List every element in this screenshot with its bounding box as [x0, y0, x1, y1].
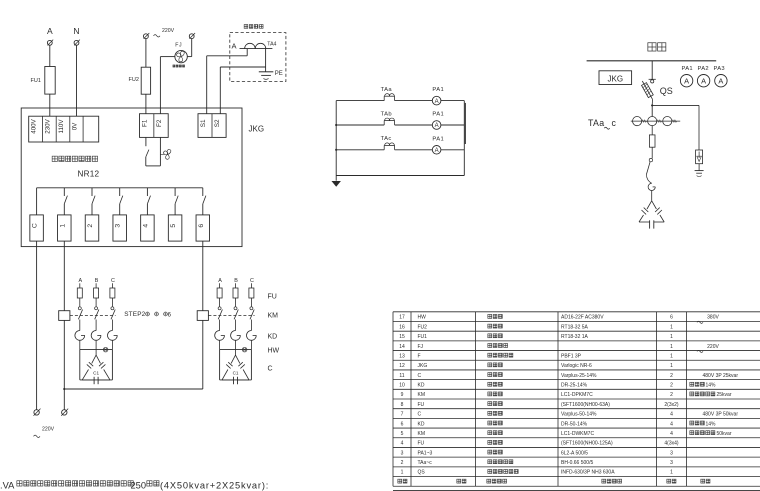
svg-text:13: 13 — [399, 353, 405, 359]
current transformers TAa-c (cabinet) — [631, 117, 680, 135]
svg-text:3: 3 — [670, 460, 673, 466]
contactor KM contact — [78, 307, 82, 331]
svg-text:3: 3 — [670, 450, 673, 456]
svg-text:JKG: JKG — [608, 75, 624, 84]
svg-text:4(3x4): 4(3x4) — [664, 441, 679, 447]
relay contact K6 — [203, 188, 206, 215]
svg-text:N: N — [73, 26, 79, 36]
svg-text:TAa: TAa — [381, 87, 393, 93]
capacitor delta (cabinet) — [639, 201, 664, 229]
relay contact K5 — [175, 188, 178, 215]
svg-text:C: C — [32, 223, 39, 228]
svg-text:c: c — [612, 118, 617, 128]
wire right measuring bus — [464, 101, 465, 176]
svg-text:PBF1 3P: PBF1 3P — [561, 353, 582, 359]
svg-text:17: 17 — [399, 315, 405, 321]
svg-text:TAc: TAc — [381, 136, 392, 142]
current transformer TA4 — [240, 42, 277, 49]
svg-text:A: A — [47, 26, 53, 36]
wire KM1 coil to common — [63, 320, 65, 409]
wire bus to QS — [649, 61, 656, 83]
contactor KM contact — [111, 307, 115, 331]
terminal 220V-a (bottom) — [34, 409, 41, 416]
reactor KD — [75, 331, 85, 350]
wire KM common run — [63, 388, 202, 390]
svg-text:PA3: PA3 — [714, 66, 725, 72]
ammeter PA1 (TAa) — [432, 87, 464, 105]
svg-text:TAa: TAa — [588, 118, 604, 128]
svg-text:1: 1 — [59, 224, 66, 228]
svg-text:2: 2 — [87, 224, 94, 228]
contactor KM contact — [95, 307, 99, 331]
output bus inside JKG — [37, 187, 203, 189]
svg-text:NR12: NR12 — [78, 170, 100, 179]
wire bottom return — [336, 175, 464, 177]
svg-text:A: A — [435, 123, 439, 129]
output terminal 5 — [168, 215, 182, 241]
contactor KM contact — [250, 307, 254, 331]
label cooling-fan (CJK) — [173, 65, 185, 67]
svg-text:PA1: PA1 — [682, 66, 693, 72]
svg-text:2(3x2): 2(3x2) — [664, 402, 679, 408]
svg-text:FU: FU — [418, 441, 425, 447]
ground PE — [259, 71, 283, 80]
svg-text:PE: PE — [275, 71, 283, 77]
svg-text:PA1: PA1 — [432, 87, 444, 93]
svg-text:110V: 110V — [58, 119, 65, 134]
svg-text:1: 1 — [670, 344, 673, 350]
wire QS node — [651, 105, 699, 117]
capacitor bank C1 enclosure — [80, 350, 113, 380]
svg-text:16: 16 — [399, 324, 405, 330]
svg-text:BH-0.66 500/5: BH-0.66 500/5 — [561, 460, 593, 466]
terminal N — [74, 40, 80, 46]
svg-text:JKG: JKG — [418, 363, 428, 369]
contactor KM coil — [59, 305, 70, 320]
output terminal 3 — [113, 215, 127, 241]
reactor KD — [231, 331, 241, 350]
svg-text:QS: QS — [660, 86, 673, 96]
output terminal 2 — [85, 215, 99, 241]
wire 220V-N to fan — [187, 39, 191, 57]
svg-text:4: 4 — [670, 431, 673, 437]
svg-text:14%: 14% — [706, 421, 717, 427]
svg-text:C: C — [418, 373, 422, 379]
wire N to 0V terminal — [76, 45, 78, 116]
fuse FU (branch) — [77, 283, 82, 307]
svg-text:50kvar: 50kvar — [717, 431, 732, 437]
svg-text:FU: FU — [268, 294, 277, 301]
indicator lamp HW — [103, 347, 108, 352]
svg-text:PA1: PA1 — [432, 112, 444, 118]
svg-text:10: 10 — [399, 383, 405, 389]
wire output 1 down — [63, 241, 65, 311]
svg-text:(4X50kvar+2X25kvar):: (4X50kvar+2X25kvar): — [160, 480, 269, 490]
wire TA4 secondary 1 — [207, 49, 248, 114]
svg-text:A: A — [684, 77, 689, 86]
ammeter PA1 (TAc) — [432, 136, 464, 154]
terminal 220V-b (bottom) — [61, 409, 68, 416]
main busbar — [587, 60, 717, 62]
reactor KD — [107, 331, 117, 350]
capacitor C1 delta connection — [222, 350, 249, 385]
svg-text:KD: KD — [418, 383, 425, 389]
label main-cabinet (CJK) — [648, 43, 666, 51]
svg-text:1: 1 — [401, 470, 404, 476]
svg-text:STEP2: STEP2 — [124, 311, 145, 318]
contactor KM contact — [234, 307, 238, 331]
phase labels A B C — [78, 278, 114, 284]
svg-text:25kvar: 25kvar — [717, 392, 732, 398]
svg-text:220V: 220V — [162, 28, 175, 34]
terminal 220V-L (top) — [144, 33, 150, 39]
fuse FU2 — [129, 67, 151, 94]
label 220V supply (top) — [154, 28, 175, 37]
switch contact (cabinet) — [646, 158, 652, 183]
svg-text:KM: KM — [418, 431, 426, 437]
svg-text:2: 2 — [401, 460, 404, 466]
svg-text:Varlogic NR-6: Varlogic NR-6 — [561, 363, 592, 369]
svg-text:5: 5 — [170, 224, 177, 228]
svg-text:B: B — [95, 278, 99, 284]
controller JKG enclosure — [21, 108, 264, 247]
svg-text:F: F — [418, 353, 421, 359]
fuse FU (branch) — [233, 283, 238, 307]
reactor (cabinet) — [648, 183, 655, 201]
svg-text:C: C — [250, 278, 254, 284]
svg-text:6: 6 — [401, 421, 404, 427]
svg-text:DR-25-14%: DR-25-14% — [561, 383, 588, 389]
ammeter PA2 (cabinet) — [697, 75, 709, 87]
svg-text:220V: 220V — [42, 427, 55, 433]
phase labels A B C — [218, 278, 254, 284]
fuse FU (branch) — [94, 283, 99, 307]
svg-text:220V: 220V — [707, 344, 719, 350]
component table (BOM) — [393, 312, 760, 491]
svg-text:4: 4 — [401, 441, 404, 447]
relay contact K2 — [92, 188, 95, 215]
svg-text:A: A — [78, 278, 82, 284]
svg-text:2: 2 — [670, 392, 673, 398]
svg-text:KD: KD — [268, 334, 278, 341]
svg-text:FU1: FU1 — [418, 334, 428, 340]
svg-text:11: 11 — [399, 373, 404, 379]
terminal 220V-N (top) — [189, 33, 195, 39]
wire A to FU1 — [49, 45, 51, 66]
svg-text:B: B — [234, 278, 238, 284]
svg-text:KM: KM — [418, 392, 426, 398]
wire branch C — [36, 188, 38, 215]
label 220V (bottom) — [34, 427, 55, 438]
terminal A — [47, 40, 53, 46]
svg-text:(SFT1600(NH00-63A): (SFT1600(NH00-63A) — [561, 402, 610, 408]
svg-text:0V: 0V — [71, 122, 78, 130]
svg-text:1: 1 — [670, 324, 673, 330]
svg-text:A: A — [701, 77, 706, 86]
svg-text:AD16-22F AC380V: AD16-22F AC380V — [561, 315, 604, 321]
svg-text:PA2: PA2 — [698, 66, 709, 72]
wire FU2 to F1 — [145, 94, 147, 114]
svg-text:A: A — [435, 99, 439, 105]
current transformer TAc — [336, 136, 432, 150]
fuse FU (branch) — [217, 283, 222, 307]
ammeter PA1 (TAb) — [432, 112, 464, 130]
wire left measuring bus — [335, 101, 337, 181]
svg-text:HW: HW — [268, 348, 280, 355]
note: capacitor bank capacity text — [0, 480, 269, 490]
svg-text:1: 1 — [670, 470, 673, 476]
labels FU KM KD HW C (right of STEP6) — [268, 294, 280, 373]
svg-text:1: 1 — [670, 334, 673, 340]
capacitor bank C1 enclosure — [220, 350, 252, 380]
svg-text:A: A — [218, 278, 222, 284]
output terminal 6 — [196, 215, 210, 241]
svg-text:RT18-32 1A: RT18-32 1A — [561, 334, 589, 340]
fuse FU (branch) — [110, 283, 115, 307]
svg-text:230V: 230V — [44, 118, 51, 133]
svg-text:FU2: FU2 — [129, 77, 139, 83]
fuse FU1 — [31, 67, 56, 95]
svg-text:250: 250 — [131, 480, 147, 490]
node A (incoming phase in dashed box) — [231, 42, 236, 51]
ammeter PA3 (cabinet) — [715, 75, 727, 87]
svg-text:DR-50-14%: DR-50-14% — [561, 421, 588, 427]
svg-text:1: 1 — [670, 363, 673, 369]
wire TA4 secondary 2 — [220, 49, 265, 114]
capacitor C1 delta connection — [82, 350, 110, 385]
fan FJ (cooling fan) — [175, 43, 187, 63]
svg-text:(SFT1600(NH00-125A): (SFT1600(NH00-125A) — [561, 441, 613, 447]
svg-text:PA1~3: PA1~3 — [418, 450, 433, 456]
svg-text:TAb: TAb — [381, 111, 392, 117]
svg-text:F2: F2 — [156, 119, 163, 127]
output terminal 4 — [141, 215, 155, 241]
incoming-line dashed enclosure (CJK label) — [230, 25, 286, 82]
svg-text:FU1: FU1 — [31, 78, 41, 84]
svg-text:INFD-630/3P NH3 630A: INFD-630/3P NH3 630A — [561, 470, 615, 476]
wire output 6 down — [202, 241, 204, 311]
svg-text:1: 1 — [670, 353, 673, 359]
label STEP2..6 — [124, 311, 171, 318]
label reactive-power-compensation-controller (CJK) — [52, 156, 97, 161]
fuse FU (cabinet) — [649, 135, 655, 158]
svg-text:8: 8 — [401, 402, 404, 408]
svg-text:FU2: FU2 — [418, 324, 428, 330]
svg-text:PA1: PA1 — [432, 136, 444, 142]
fuse FU (branch) — [249, 283, 254, 307]
label NR12 — [78, 170, 100, 179]
reactor KD — [91, 331, 101, 350]
svg-text:400V: 400V — [31, 118, 38, 133]
svg-text:KM: KM — [268, 313, 279, 320]
contactor KM coil — [197, 305, 208, 320]
svg-text:C: C — [268, 366, 273, 373]
svg-text:15: 15 — [399, 334, 405, 340]
fuse-disconnector QS — [642, 81, 673, 105]
svg-text:JKG: JKG — [249, 125, 265, 134]
svg-text:7: 7 — [401, 412, 404, 418]
svg-text:3: 3 — [115, 224, 122, 228]
svg-text:6L2-A 500/5: 6L2-A 500/5 — [561, 450, 588, 456]
svg-text:6: 6 — [670, 315, 673, 321]
wire to surge arrester — [698, 105, 700, 150]
label TAa~c — [588, 118, 617, 129]
svg-text:TAa~c: TAa~c — [418, 460, 433, 466]
node N (neutral input terminal label) — [73, 26, 79, 36]
svg-text:3: 3 — [401, 450, 404, 456]
svg-text:380V: 380V — [707, 315, 719, 321]
svg-text:S1: S1 — [200, 119, 207, 127]
indicator lamp HW — [242, 347, 247, 352]
surge arrester F — [696, 150, 703, 171]
svg-text:A: A — [435, 148, 439, 154]
svg-text:14: 14 — [399, 344, 405, 350]
controller JKG (main cabinet) — [599, 71, 632, 85]
svg-text:F1: F1 — [142, 119, 149, 127]
svg-text:TA4: TA4 — [267, 42, 276, 48]
svg-text:Varplus-25-14%: Varplus-25-14% — [561, 373, 597, 379]
svg-text:9: 9 — [401, 392, 404, 398]
wire fan to F2 — [160, 57, 175, 114]
svg-text:480V 3P 25kvar: 480V 3P 25kvar — [703, 373, 739, 379]
svg-text:S2: S2 — [214, 119, 221, 127]
svg-text:HW: HW — [418, 315, 427, 321]
svg-text:Varplus-50-14%: Varplus-50-14% — [561, 412, 597, 418]
ground (arrester) — [695, 171, 704, 177]
contactor KM linkage (dashed) — [70, 315, 116, 317]
svg-text:A: A — [718, 77, 723, 86]
contactor KM linkage (dashed) — [208, 315, 254, 317]
svg-text:C1: C1 — [233, 370, 239, 375]
output terminal 1 — [58, 215, 72, 241]
wire FU1 to 230V terminal — [49, 94, 51, 116]
svg-text:6: 6 — [198, 224, 205, 228]
svg-text:12: 12 — [399, 363, 405, 369]
wire 220V-L to FU2 — [145, 39, 147, 68]
wire KM2 coil to common — [202, 320, 204, 389]
svg-text:A: A — [231, 42, 236, 51]
current transformer TAa — [336, 87, 432, 101]
svg-text:FJ: FJ — [418, 344, 424, 350]
svg-text:FJ: FJ — [175, 43, 182, 49]
node A (phase input terminal label) — [47, 26, 53, 36]
svg-text:QS: QS — [418, 470, 426, 476]
svg-text:2: 2 — [670, 383, 673, 389]
svg-text:C1: C1 — [93, 370, 99, 375]
svg-text:.VA: .VA — [0, 480, 15, 490]
reactor KD — [246, 331, 256, 350]
svg-text:14%: 14% — [706, 383, 717, 389]
ground (measuring circuit) — [332, 181, 340, 186]
svg-text:4: 4 — [670, 421, 673, 427]
relay contact K1 — [64, 188, 67, 215]
wire C to 220V terminal — [36, 241, 38, 410]
relay contact K4 — [147, 188, 150, 215]
svg-text:2: 2 — [670, 373, 673, 379]
terminal block F1 F2 — [140, 114, 169, 138]
svg-text:C: C — [111, 278, 115, 284]
svg-text:LC1-DWKM7C: LC1-DWKM7C — [561, 431, 594, 437]
svg-text:LC1-DPKM7C: LC1-DPKM7C — [561, 392, 593, 398]
svg-text:480V 3P 50kvar: 480V 3P 50kvar — [703, 412, 739, 418]
svg-text:KD: KD — [418, 421, 425, 427]
ammeter PA1 (cabinet) — [680, 75, 692, 87]
terminal block S1 S2 — [198, 114, 226, 138]
svg-text:4: 4 — [142, 224, 149, 228]
output terminal C — [30, 215, 43, 241]
relay contact K3 — [120, 188, 123, 215]
svg-text:RT18-32 5A: RT18-32 5A — [561, 324, 589, 330]
svg-text:4: 4 — [670, 412, 673, 418]
fan symbol inside JKG — [160, 149, 170, 159]
voltage terminal strip 400V/230V/110V/0V — [29, 116, 99, 142]
contactor KM contact — [218, 307, 222, 331]
svg-text:C: C — [418, 412, 422, 418]
svg-text:FU: FU — [418, 402, 425, 408]
svg-text:5: 5 — [401, 431, 404, 437]
fan thermostat contact inside JKG — [146, 137, 161, 166]
labels PA1 PA2 PA3 — [682, 66, 725, 72]
reactor KD — [215, 331, 225, 350]
current transformer TAb — [336, 111, 432, 125]
